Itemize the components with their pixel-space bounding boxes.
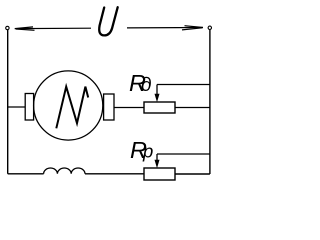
- wire (left vertical): [7, 30, 9, 174]
- brush (right): [104, 94, 114, 120]
- motor letter M: [56, 87, 88, 129]
- resistor Rp (rheostat body): [144, 168, 175, 180]
- terminal (top-right): [208, 26, 211, 29]
- dimension line (right, arrow to right terminal): [127, 26, 203, 30]
- svg-text:д: д: [141, 75, 152, 96]
- terminal (top-left): [6, 26, 9, 29]
- wire (Rd wiper branch): [157, 84, 210, 86]
- wire (bottom left segment): [8, 173, 44, 175]
- Rp wiper arrow: [155, 154, 160, 168]
- wire (motor left lead): [8, 106, 26, 108]
- svg-text:р: р: [142, 141, 153, 162]
- wire (motor right lead to Rd): [114, 107, 144, 109]
- voltage label U: [99, 7, 117, 35]
- brush (left): [25, 94, 33, 121]
- resistor Rd (rheostat body): [144, 102, 175, 113]
- dimension line (left, arrow to left terminal): [15, 27, 91, 30]
- motor M1 circle: [34, 71, 103, 140]
- inductor L (field winding): [44, 168, 85, 174]
- wire (Rp wiper branch): [157, 153, 210, 155]
- wire (Rp right lead): [175, 173, 210, 175]
- Rd wiper arrow: [155, 85, 160, 103]
- wire (Rd right lead): [175, 107, 210, 109]
- wire (right vertical): [209, 30, 211, 174]
- wire (bottom middle segment): [85, 173, 144, 175]
